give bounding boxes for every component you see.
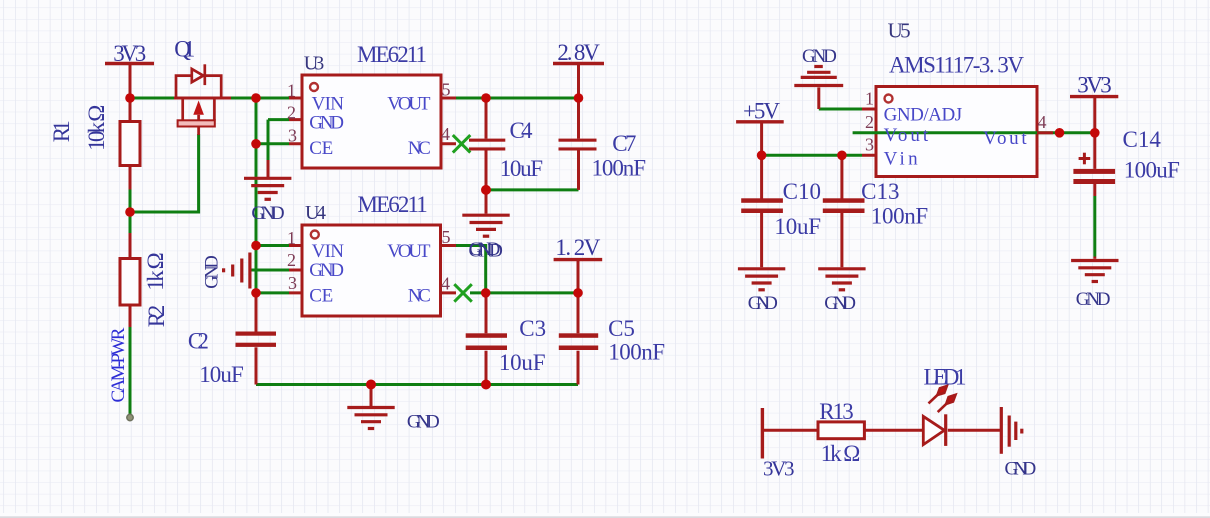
svg-text:5: 5 [442,227,451,247]
svg-text:10uF: 10uF [199,362,244,387]
svg-text:10k Ω: 10k Ω [84,105,109,151]
svg-text:GND: GND [824,293,856,314]
svg-text:GND: GND [309,260,344,281]
svg-text:CAM-PWR: CAM-PWR [108,327,129,402]
svg-text:2: 2 [865,112,874,132]
svg-text:CE: CE [309,286,333,307]
svg-text:C2: C2 [188,328,209,353]
svg-text:AMS1117-3. 3V: AMS1117-3. 3V [889,52,1024,77]
svg-text:GND: GND [469,240,503,261]
svg-text:GND: GND [1076,289,1111,310]
svg-text:100nF: 100nF [871,203,928,228]
svg-text:10uF: 10uF [500,156,543,181]
svg-text:C14: C14 [1123,127,1162,152]
svg-text:GND: GND [1005,459,1037,480]
svg-text:C3: C3 [519,316,546,341]
svg-text:Vin: Vin [884,149,919,170]
svg-text:3: 3 [288,273,297,293]
svg-text:1k Ω: 1k Ω [821,441,861,466]
svg-text:100nF: 100nF [592,155,647,180]
svg-text:1: 1 [865,89,874,109]
svg-text:100nF: 100nF [608,340,665,365]
svg-text:U3: U3 [304,52,325,74]
svg-text:1. 2V: 1. 2V [555,235,600,260]
svg-text:3V3: 3V3 [763,456,795,480]
svg-text:U4: U4 [305,202,326,224]
svg-text:R1: R1 [49,120,74,142]
svg-text:C7: C7 [612,131,636,156]
svg-text:100uF: 100uF [1124,158,1180,183]
svg-text:4: 4 [441,273,450,293]
svg-text:4: 4 [441,124,450,144]
svg-text:ME6211: ME6211 [357,42,427,67]
svg-text:2: 2 [287,103,296,123]
svg-text:C4: C4 [510,118,534,143]
svg-text:1: 1 [287,228,296,248]
svg-text:2: 2 [287,250,296,270]
svg-text:VOUT: VOUT [387,241,431,262]
svg-text:GND/ADJ: GND/ADJ [884,105,963,126]
svg-text:+5V: +5V [743,98,780,123]
svg-text:10uF: 10uF [774,214,821,239]
svg-text:GND: GND [802,46,837,67]
svg-text:5: 5 [442,79,451,99]
svg-text:C13: C13 [861,179,899,204]
svg-text:Vout: Vout [884,125,929,146]
svg-text:GND: GND [748,293,778,314]
svg-text:LED1: LED1 [924,365,967,390]
svg-text:GND: GND [251,203,284,224]
svg-text:1k Ω: 1k Ω [143,252,168,291]
svg-text:VOUT: VOUT [387,93,431,114]
svg-text:GND: GND [202,255,222,289]
svg-text:U5: U5 [888,19,911,43]
svg-text:C5: C5 [608,316,635,341]
svg-text:NC: NC [408,138,431,159]
svg-text:3V3: 3V3 [113,41,146,66]
svg-text:Q1: Q1 [174,37,195,62]
svg-text:4: 4 [1038,112,1047,132]
svg-text:R2: R2 [144,305,169,328]
svg-text:3: 3 [865,135,874,155]
svg-text:C10: C10 [783,179,821,204]
svg-text:10uF: 10uF [499,350,546,375]
svg-text:VIN: VIN [312,93,345,114]
svg-text:GND: GND [407,412,440,433]
svg-text:3V3: 3V3 [1077,73,1112,98]
svg-text:NC: NC [408,285,431,306]
svg-text:1: 1 [287,81,296,101]
svg-text:GND: GND [309,113,344,134]
svg-text:Vout: Vout [983,128,1027,149]
svg-text:ME6211: ME6211 [358,192,428,217]
svg-text:R13: R13 [819,399,854,424]
svg-text:VIN: VIN [312,241,345,262]
svg-text:2. 8V: 2. 8V [557,40,600,65]
svg-text:3: 3 [288,125,297,145]
svg-text:CE: CE [309,138,333,159]
